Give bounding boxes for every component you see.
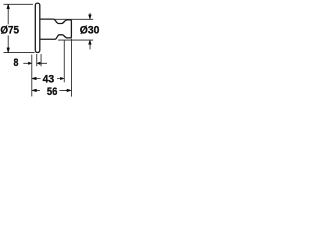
knob body profile xyxy=(41,19,72,39)
wall reference extension line xyxy=(31,55,33,97)
dim56 left arrow xyxy=(32,89,37,92)
plate face extension lines xyxy=(37,54,41,66)
dia75 top extension line xyxy=(4,3,34,5)
svg-text:Ø75: Ø75 xyxy=(0,25,19,37)
dia30 top extension line xyxy=(54,18,94,20)
dia75 top arrow xyxy=(7,4,10,9)
dia30 bottom extension line xyxy=(58,39,93,41)
extension line at x64.1 xyxy=(63,40,65,82)
dim8 tails xyxy=(23,62,47,64)
dim8 right arrow xyxy=(37,62,40,65)
extension line at x71.5 xyxy=(71,39,73,97)
dim43 lines xyxy=(36,78,61,80)
svg-text:56: 56 xyxy=(47,86,58,98)
dim56 lines xyxy=(36,89,67,91)
dia75 dimension line xyxy=(7,4,9,53)
dia75 bottom extension line xyxy=(4,52,35,54)
dim8 left arrow xyxy=(28,62,31,65)
wall plate (rosette) side view xyxy=(35,3,40,52)
svg-text:8: 8 xyxy=(14,57,19,69)
dia30 top arrow xyxy=(89,15,92,19)
dia30 bottom arrow xyxy=(89,40,92,44)
svg-text:Ø30: Ø30 xyxy=(80,25,100,37)
dim43 right arrow xyxy=(60,77,64,80)
dim56 right arrow xyxy=(67,89,71,92)
svg-text:43: 43 xyxy=(43,74,55,86)
dia30 arrow stubs xyxy=(89,13,91,50)
dia75 bottom arrow xyxy=(7,48,10,53)
dim43 left arrow xyxy=(32,77,37,80)
